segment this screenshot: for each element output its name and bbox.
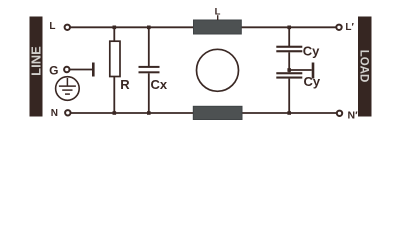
svg-text:N′: N′ (348, 110, 359, 122)
svg-text:N: N (51, 108, 58, 119)
svg-text:Cx: Cx (151, 77, 168, 92)
svg-text:G: G (49, 64, 58, 78)
svg-text:LINE: LINE (28, 46, 43, 76)
svg-text:L: L (49, 21, 55, 32)
svg-text:Cy: Cy (303, 44, 320, 59)
svg-text:R: R (120, 77, 130, 92)
svg-text:L′: L′ (345, 22, 354, 33)
svg-text:LOAD: LOAD (358, 50, 370, 83)
